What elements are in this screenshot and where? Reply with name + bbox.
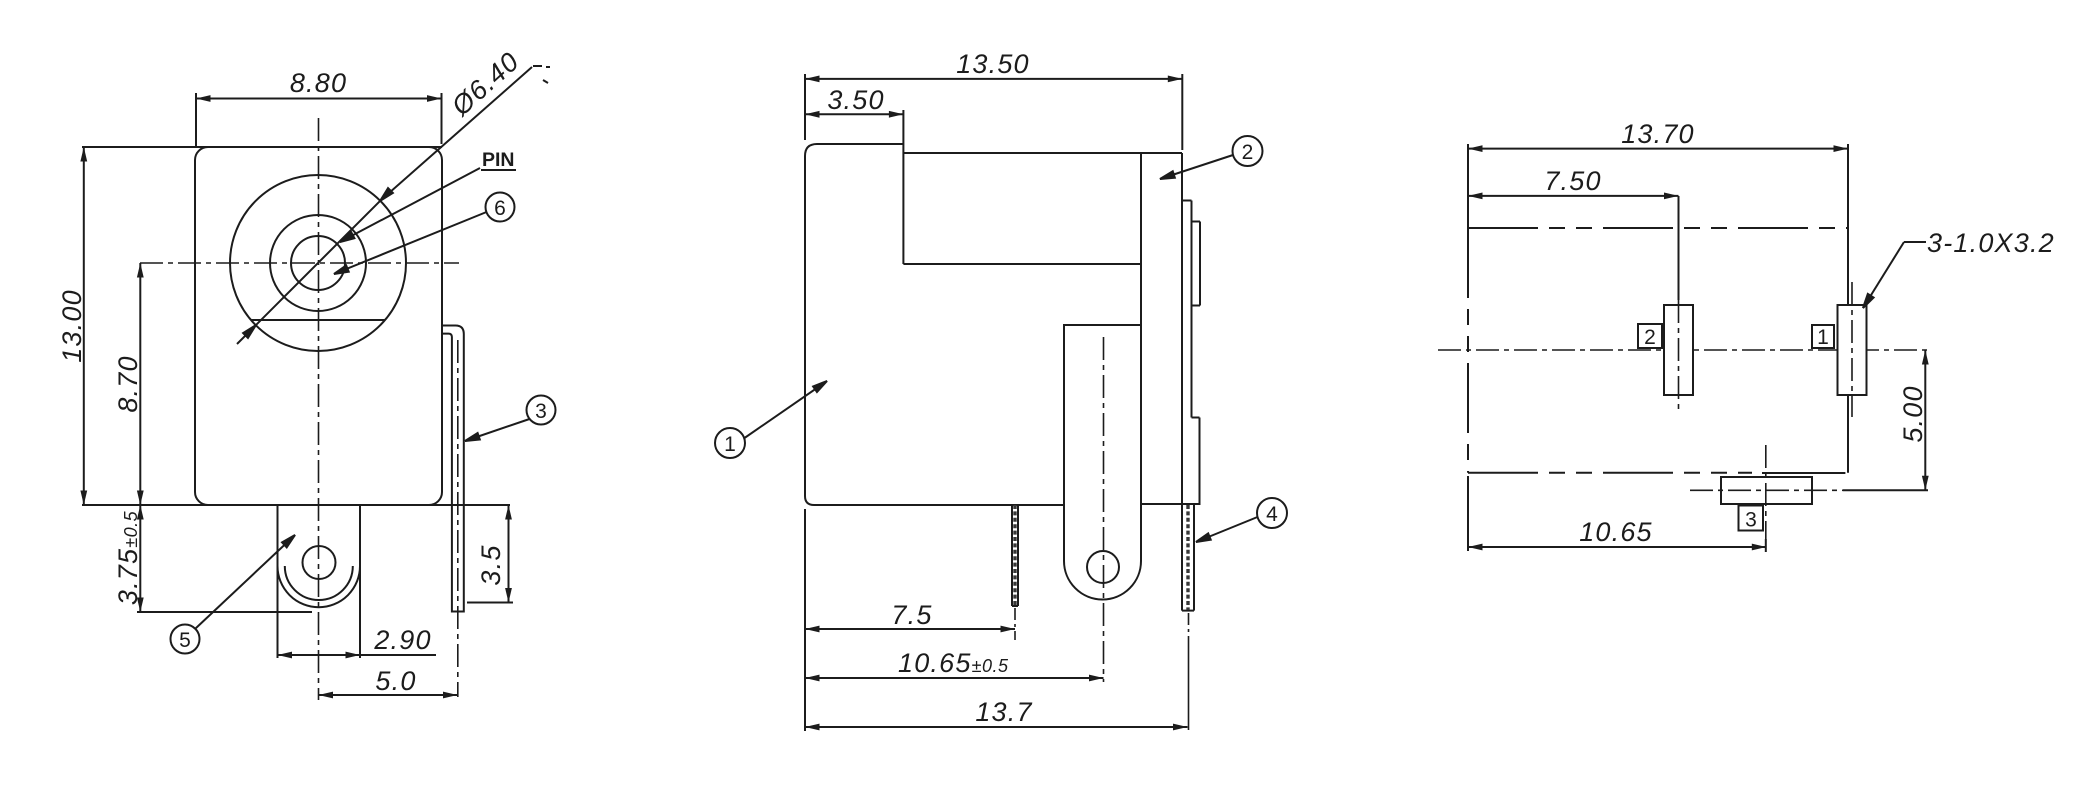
svg-text:2.90: 2.90 [373, 625, 431, 655]
pad 3 [1721, 477, 1812, 504]
body left edge [804, 156, 806, 496]
svg-text:PIN: PIN [482, 149, 515, 171]
dim 10.65±0.5 [805, 677, 1104, 679]
bracket outer arc [278, 566, 361, 607]
callout 1 [715, 428, 745, 458]
label box 2 [1638, 324, 1662, 348]
svg-text:3.50: 3.50 [827, 85, 884, 115]
svg-text:5: 5 [179, 629, 191, 652]
svg-text:7.5: 7.5 [891, 600, 932, 630]
callout 6 [486, 193, 515, 222]
svg-text:5.0: 5.0 [375, 666, 416, 696]
callout 5 [171, 625, 200, 654]
internal horizontal edge [903, 263, 1141, 265]
body top edge step [817, 143, 903, 145]
svg-text:5.00: 5.00 [1898, 385, 1928, 442]
dim 5.0 [319, 694, 458, 696]
lug hole [1087, 551, 1119, 583]
svg-text:13.00: 13.00 [57, 289, 87, 363]
dim 7.5 [805, 628, 1015, 630]
side plate edge-on [1182, 200, 1192, 202]
callout 3 [527, 396, 556, 425]
label box 1 [1812, 325, 1834, 348]
centerline dashes near Ø6.40 [533, 65, 542, 67]
svg-text:6: 6 [494, 197, 506, 220]
dim 3.5 [508, 505, 510, 603]
outline right edge [1847, 144, 1849, 473]
dim 8.70 [139, 263, 141, 505]
pad 2 [1664, 305, 1693, 395]
dim 10.65 [1468, 546, 1766, 548]
callout 4 [1257, 498, 1287, 528]
center pin lug [1064, 325, 1141, 600]
dim 3.50 [805, 113, 903, 115]
barrel outer circle [230, 175, 406, 351]
svg-text:7.50: 7.50 [1544, 166, 1601, 196]
barrel middle circle [270, 215, 366, 311]
vertical centerline [318, 118, 320, 700]
body bottom edge [814, 504, 1064, 506]
pin bracket left side [277, 505, 279, 658]
outline left edge (phantom) [1467, 228, 1469, 473]
leader 3-1.0X3.2 [1904, 241, 1926, 243]
body outline front view [195, 147, 442, 505]
svg-text:3.5: 3.5 [476, 544, 506, 585]
dim 2.90 [278, 654, 361, 656]
pin bracket right side [359, 505, 361, 658]
svg-text:1: 1 [1817, 326, 1829, 349]
dim 8.80 [196, 98, 442, 100]
diameter leader Ø6.40 [237, 201, 380, 344]
svg-text:8.80: 8.80 [290, 68, 347, 98]
svg-text:1: 1 [724, 433, 736, 456]
dim 13.00 [83, 147, 85, 505]
horizontal centerline [1438, 349, 1927, 351]
dim 13.7 [805, 726, 1188, 728]
svg-text:3: 3 [1745, 509, 1757, 532]
center pin circle [291, 236, 345, 290]
svg-text:13.7: 13.7 [975, 697, 1032, 727]
body top edge [903, 152, 1182, 154]
dim 5.00 [1924, 350, 1926, 490]
dim 3.75±0.5 [139, 505, 141, 612]
callout 2 [1233, 136, 1263, 166]
side terminal strip [442, 326, 464, 612]
svg-text:13.70: 13.70 [1621, 119, 1695, 149]
PIN leader [340, 168, 480, 242]
outline bottom edge (phantom) [1468, 472, 1752, 474]
left pin [1011, 505, 1013, 606]
svg-text:4: 4 [1266, 503, 1278, 526]
svg-text:8.70: 8.70 [113, 355, 143, 412]
svg-text:10.65: 10.65 [1579, 517, 1653, 547]
svg-text:2: 2 [1644, 326, 1656, 349]
side plate step [1192, 417, 1200, 419]
bottom extension line [82, 504, 510, 506]
dim 13.50 [805, 78, 1182, 80]
horizontal centerline [140, 262, 459, 264]
side plate tab [1192, 221, 1201, 223]
strip centerline [457, 340, 459, 697]
dim 7.50 [1468, 195, 1679, 197]
pad 1 [1838, 305, 1867, 395]
bracket inner arc [285, 566, 353, 600]
top extension line [82, 146, 442, 148]
internal vertical edge [1140, 153, 1142, 505]
bracket hole [303, 546, 336, 579]
svg-text:3.75±0.5: 3.75±0.5 [113, 510, 143, 605]
right pin [1193, 505, 1195, 611]
dim 13.70 [1468, 148, 1848, 150]
svg-text:13.50: 13.50 [956, 49, 1030, 79]
svg-text:10.65±0.5: 10.65±0.5 [898, 648, 1009, 678]
svg-text:3-1.0X3.2: 3-1.0X3.2 [1927, 228, 2055, 258]
svg-text:3: 3 [535, 400, 547, 423]
lug centerline [1103, 337, 1105, 682]
label box 3 [1739, 506, 1764, 531]
chord line [251, 319, 385, 321]
body right edge [1181, 153, 1183, 611]
outline top edge (phantom) [1468, 227, 1848, 229]
svg-text:2: 2 [1242, 141, 1254, 164]
